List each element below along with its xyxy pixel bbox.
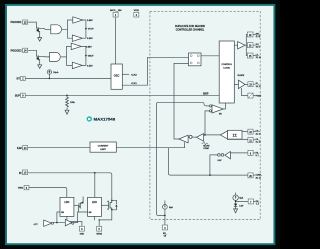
wire RT pin to OSC: [25, 78, 111, 80]
node UVLO out: [56, 222, 58, 224]
pin LX: [247, 53, 260, 59]
svg-text:CONTROL: CONTROL: [221, 64, 232, 66]
wire SUP/SKIP line to control logic: [25, 94, 219, 96]
svg-text:VDD: VDD: [134, 10, 140, 12]
node COMP: [209, 174, 211, 176]
wire lower driver to DL pin: [234, 83, 255, 85]
pin VDD: [134, 10, 140, 17]
svg-text:20, 12: 20, 12: [256, 177, 261, 179]
transistor Q3: [79, 197, 84, 213]
resistor R1 100k: [66, 97, 69, 107]
svg-text:IN: IN: [19, 172, 22, 175]
ground for R1: [65, 110, 69, 114]
node VTOP: [85, 28, 87, 30]
wire Q4 output to VREG5 pin: [95, 209, 112, 227]
svg-text:ΣΣ: ΣΣ: [233, 134, 237, 138]
node SUP resistor junction: [66, 95, 68, 97]
pin IN: [19, 170, 28, 175]
comparator A1: [73, 17, 83, 23]
transistor Q2: [37, 55, 50, 64]
pin MODE1: [11, 48, 28, 52]
wire G1 output split to comparators: [62, 20, 72, 38]
wire OSC CLK1 to flip-flop: [122, 57, 188, 85]
LDO1 block: [60, 197, 74, 216]
node PWM input: [204, 134, 206, 136]
comparator U5 PWM: [197, 134, 204, 141]
svg-text:SCL_IN: SCL_IN: [110, 10, 122, 12]
wire VREG pin to LDO1: [29, 188, 67, 198]
dashed box second channel: [150, 11, 260, 219]
driver U2 high side: [238, 42, 245, 49]
svg-text:PGND: PGND: [256, 96, 262, 98]
pin GND: [79, 226, 84, 235]
node EN1: [164, 215, 166, 217]
wire MODE0 pin to Q1 gate: [28, 22, 37, 28]
pin VREG: [18, 185, 29, 190]
gate G2: [50, 52, 61, 61]
wire LDO2 to Q4 gate: [101, 204, 108, 206]
current source I3 EN1: [163, 205, 174, 210]
svg-text:21, 13: 21, 13: [256, 142, 261, 144]
pin SYNC_IN: [110, 10, 122, 17]
svg-text:LIMIT: LIMIT: [100, 149, 106, 151]
svg-text:0.88V: 0.88V: [86, 46, 92, 48]
pin PGND: [248, 93, 262, 98]
wire FB pin to FB amp: [230, 152, 248, 154]
wire SYNC pin down to OSC: [115, 18, 117, 64]
svg-text:OSC: OSC: [114, 73, 120, 77]
svg-text:C8: C8: [164, 235, 166, 237]
svg-text:8, 1: 8, 1: [256, 155, 259, 157]
gate U4 enable comparator: [209, 105, 223, 116]
ground for D1: [234, 209, 238, 213]
wire BST DH LX label stubs: [253, 34, 255, 55]
inverter U9: [65, 219, 74, 225]
comparator U6: [179, 135, 188, 143]
comparator U8 UVLO: [34, 220, 54, 226]
pin DH: [247, 43, 260, 49]
svg-text:PGOOD2: PGOOD2: [11, 49, 23, 52]
svg-text:CURRENT: CURRENT: [98, 146, 109, 148]
wire Q2 drain to gate G2 input: [35, 55, 38, 57]
svg-text:ILIM: ILIM: [17, 147, 22, 150]
pin EN1 bottom: [162, 225, 167, 237]
svg-text:CONTROLLER CHANNEL: CONTROLLER CHANNEL: [176, 29, 205, 32]
node EN divider: [235, 201, 236, 202]
svg-text:23, 11: 23, 11: [256, 86, 261, 88]
CS amp gain block: [220, 130, 242, 139]
wire comparator bus VBOT: [81, 46, 86, 65]
wire top driver to BST DH LX pins: [234, 34, 247, 55]
svg-text:COMP_: COMP_: [256, 175, 263, 177]
pin CSN: [248, 137, 261, 143]
comparator A2: [72, 35, 82, 41]
pin ILIM: [17, 146, 28, 150]
wire FB amp output to COMP node: [210, 155, 218, 175]
svg-text:SUP: SUP: [15, 94, 20, 97]
gate G1: [51, 25, 62, 34]
svg-text:26, 9: 26, 9: [256, 47, 260, 49]
wire LDO1 to Q3 gate: [74, 205, 79, 207]
svg-text:MAX17548: MAX17548: [94, 117, 116, 121]
svg-text:LDO: LDO: [65, 202, 70, 204]
driver U3 low side: [238, 80, 245, 88]
svg-text:25, 10: 25, 10: [256, 57, 261, 59]
pin DL: [248, 82, 261, 88]
wire inverter to LDO2 EN: [74, 212, 88, 223]
wire PWM out to flip-flop R input: [174, 63, 189, 139]
transistor Q4 pass: [107, 200, 118, 211]
node VBOT: [85, 55, 87, 57]
ground for Q1: [38, 38, 42, 42]
svg-text:0.55V: 0.55V: [87, 65, 93, 67]
current limit block: [90, 142, 116, 152]
current source I2 EN pullup: [233, 195, 244, 200]
node VREG5 join: [99, 219, 100, 220]
current source I1 10uA: [47, 70, 51, 74]
ground for Q2: [38, 65, 42, 69]
svg-text:VTOP: VTOP: [88, 29, 94, 31]
svg-text:CLK1: CLK1: [131, 83, 137, 85]
svg-text:COMP: COMP: [203, 148, 209, 150]
oscillator OSC block: [111, 64, 122, 89]
pin COMP: [248, 173, 263, 179]
wire ILIM pin to current limit block: [25, 147, 90, 149]
wire IN pin line: [28, 173, 112, 201]
LDO2 block: [88, 197, 102, 216]
wire EN sense line rounded corner: [157, 102, 210, 215]
pin RT: [17, 76, 26, 80]
svg-text:VREG5: VREG5: [96, 234, 102, 236]
svg-text:VLGATE: VLGATE: [237, 74, 245, 77]
svg-text:VREG: VREG: [18, 188, 24, 190]
wire MODE1 pin to Q2 gate: [28, 50, 37, 56]
pin EN: [248, 199, 260, 206]
error amp U7: [218, 152, 231, 163]
svg-text:SKIP: SKIP: [203, 93, 209, 96]
control logic block: [219, 41, 234, 103]
pin CSP: [248, 129, 261, 135]
pin SUP: [15, 93, 25, 97]
svg-text:(P, B): (P, B): [256, 36, 261, 38]
wire CS amp output to PWM comparator: [204, 134, 221, 136]
svg-text:10μA: 10μA: [53, 71, 59, 74]
wire IN branch down to LDO2: [94, 173, 96, 198]
maxim logo: [87, 116, 116, 121]
wire PGND return: [242, 88, 256, 95]
wire current source I1 to RT line: [48, 74, 50, 78]
bubble between comparators: [189, 135, 192, 138]
svg-text:PGOOD1: PGOOD1: [11, 21, 23, 24]
wire flip-flop Q to control logic: [201, 55, 219, 57]
wire EN2 current source node: [236, 193, 249, 209]
pin VREG5: [96, 226, 102, 235]
svg-text:VBOT: VBOT: [88, 56, 95, 58]
wire comp2 lower input from current limit line: [184, 143, 186, 148]
svg-text:LOGIC: LOGIC: [223, 67, 230, 69]
wire comparator bus VTOP: [82, 20, 86, 38]
wire UVLO comparator output node: [52, 212, 66, 222]
svg-text:LDO: LDO: [92, 202, 97, 204]
svg-text:GND: GND: [80, 234, 85, 236]
slope comp symbol: [202, 142, 208, 145]
wire G2 output split to comparators: [61, 46, 72, 65]
transistor Q1: [37, 27, 51, 37]
pin BST: [247, 32, 261, 38]
wire EN1 current source stub: [164, 201, 166, 225]
wire LDO1 GND return: [67, 216, 82, 226]
node IN branch: [94, 172, 96, 174]
wire EN gate inverted input down to PWM node: [205, 111, 210, 135]
node RT junction: [49, 78, 50, 79]
zener diode D1: [234, 204, 244, 208]
wire CS amp rails to CSP CSN pins: [228, 132, 256, 140]
wire OSC CLK2 stub: [122, 73, 129, 75]
svg-text:0.88V: 0.88V: [87, 20, 93, 22]
wire Q1 drain to gate G1 input: [35, 27, 38, 29]
pin MODE0: [11, 20, 28, 24]
pin FB: [248, 150, 260, 157]
svg-text:CLK2: CLK2: [131, 74, 137, 76]
wire EN gate output to control logic: [223, 103, 225, 109]
wire resistor R1 drop: [66, 95, 68, 110]
wire current limit to COMP net: [116, 148, 248, 175]
comparator A3: [71, 43, 81, 49]
svg-text:DUPLICATE FOR SECOND: DUPLICATE FOR SECOND: [175, 25, 205, 28]
svg-text:RT: RT: [17, 78, 21, 81]
flip-flop FF1: [189, 53, 202, 66]
comparator A4: [72, 62, 82, 68]
svg-text:7, 2: 7, 2: [256, 204, 259, 206]
svg-text:0.55V: 0.55V: [87, 38, 93, 40]
wire PWM comp1 to bubble to comp2: [188, 136, 196, 138]
svg-text:22, 12: 22, 12: [256, 133, 261, 135]
